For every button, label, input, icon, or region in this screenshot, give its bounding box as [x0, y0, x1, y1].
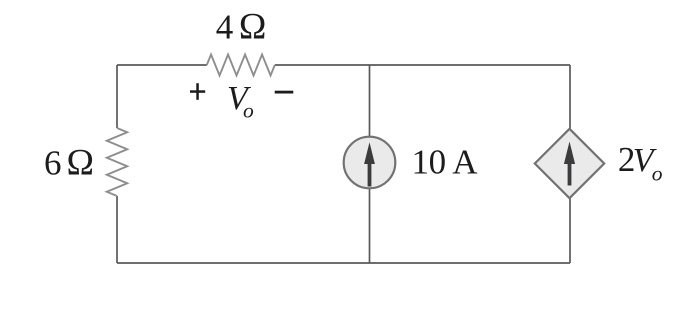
- svg-text:4: 4: [216, 8, 234, 47]
- svg-text:Ω: Ω: [239, 7, 267, 48]
- svg-text:Ω: Ω: [67, 143, 95, 184]
- svg-text:6: 6: [44, 144, 62, 183]
- svg-text:10 A: 10 A: [412, 142, 479, 181]
- svg-text:o: o: [243, 99, 254, 123]
- svg-text:o: o: [652, 161, 663, 185]
